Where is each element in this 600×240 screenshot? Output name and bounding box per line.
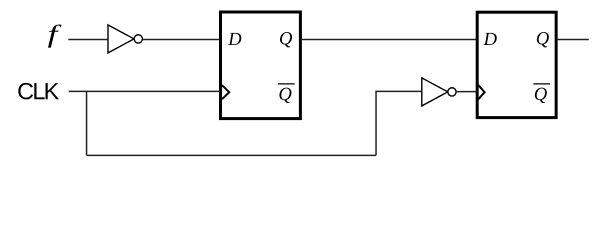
wire riser to inverter U3 input (375, 90, 422, 92)
wire Q output of U2 to D input of U4 (301, 38, 478, 40)
pin label Q-bar of U2 (overline) (278, 83, 295, 85)
node f (input signal label) (48, 25, 61, 48)
wire inverter U1 to D input of flip-flop U2 (143, 38, 221, 40)
flip-flop U4 box (477, 12, 556, 117)
inverter U1 bubble (134, 35, 142, 43)
wire right riser up to inverter U3 (375, 91, 377, 155)
node CLK (clock input label) (18, 83, 59, 100)
pin label D of U2 (228, 33, 241, 45)
pin label Q-bar of U2 (Q glyph) (279, 88, 291, 103)
inverter U1 triangle (108, 25, 134, 53)
pin label Q-bar of U4 (Q glyph) (535, 88, 547, 103)
pin label Q of U4 (537, 32, 549, 47)
wire output from Q of U4 (557, 38, 589, 40)
flip-flop U2 box (221, 12, 301, 119)
wire bottom horizontal run of clock feed (87, 154, 377, 156)
inverter U3 triangle (422, 78, 448, 106)
wire inverter U3 to clock input of U4 (456, 91, 477, 93)
inverter U3 bubble (448, 88, 456, 96)
pin label D of U4 (483, 33, 496, 45)
pin label Q-bar of U4 (overline) (533, 83, 550, 85)
flip-flop U4 clock edge-trigger mark (478, 85, 484, 99)
wire junction: CLK branch vertical drop (86, 91, 88, 155)
pin label Q of U2 (280, 32, 292, 47)
flip-flop U2 clock edge-trigger mark (222, 85, 229, 99)
wire f to inverter U1 (68, 38, 108, 40)
wire CLK to clock input of U2 (69, 90, 220, 92)
